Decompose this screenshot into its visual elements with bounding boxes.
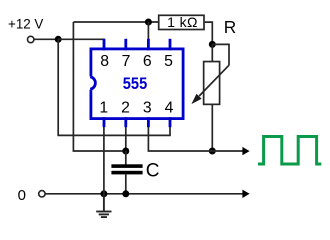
svg-text:R: R: [224, 17, 236, 37]
svg-text:1 kΩ: 1 kΩ: [167, 14, 198, 30]
svg-text:1: 1: [99, 100, 108, 117]
output arrow head: [242, 147, 249, 155]
svg-text:5: 5: [164, 53, 173, 70]
wire pin 1 down to ground bus: [103, 127, 105, 194]
node E junction dot (output): [209, 148, 216, 155]
wire resistor to node D: [205, 22, 213, 44]
pin 7 stub: [124, 39, 127, 51]
svg-text:6: 6: [143, 53, 152, 70]
svg-text:C: C: [146, 161, 160, 182]
wire node B to pin 6: [147, 22, 149, 40]
pin 2 stub: [124, 117, 127, 127]
pin 1 stub: [103, 117, 106, 127]
svg-text:555: 555: [123, 74, 147, 93]
variable resistor R body: [204, 62, 220, 105]
wire pins 2-6 loop: vertical from top wire down to node C: [73, 22, 125, 151]
svg-text:8: 8: [100, 53, 109, 70]
wire pin 2 down to node C: [125, 127, 127, 151]
terminal +12V: [28, 36, 34, 42]
wire top: loop corner to resistor box, through node B: [73, 21, 158, 23]
wire capacitor to ground bus: [125, 174, 127, 193]
node F junction dot (pin1/ground): [100, 190, 107, 197]
pin 3 stub: [147, 117, 150, 127]
node A junction dot: [55, 36, 62, 43]
variable resistor wiper arrow: [199, 65, 229, 96]
IC notch erase: [87, 76, 93, 89]
wire node A down and across to pin 4: [58, 39, 170, 135]
wire ground bus: [45, 193, 243, 195]
svg-text:4: 4: [165, 100, 174, 117]
node B junction dot: [145, 19, 152, 26]
capacitor C bottom plate: [111, 171, 142, 175]
svg-text:2: 2: [121, 100, 130, 117]
resistor 1 kOhm box: [159, 15, 204, 29]
capacitor C top plate: [111, 164, 142, 168]
wire wiper connection L: [212, 44, 229, 65]
node C junction dot: [122, 148, 129, 155]
op-amp U1 555 IC body: [91, 49, 183, 119]
wire node A to pin 8: [58, 38, 105, 40]
terminal 0V: [39, 191, 45, 197]
pin 6 stub: [147, 39, 150, 51]
wire R bottom to node E: [211, 105, 213, 152]
node D junction dot: [209, 41, 216, 48]
svg-text:0: 0: [18, 187, 26, 204]
svg-text:3: 3: [143, 100, 152, 117]
wire node C to capacitor: [125, 151, 127, 165]
pin 8 stub: [103, 39, 106, 51]
wire terminal to node A: [34, 38, 58, 40]
node G junction dot (capacitor/ground): [122, 190, 129, 197]
IC notch arc: [90, 77, 95, 89]
ground symbol: [96, 194, 111, 217]
pin 5 stub: [169, 39, 172, 51]
pin 4 stub: [169, 117, 172, 127]
ground bus arrow head: [242, 190, 249, 198]
svg-text:7: 7: [122, 53, 131, 70]
wire node D to R body top: [211, 44, 213, 62]
square wave output symbol: [258, 137, 321, 165]
svg-text:+12 V: +12 V: [8, 17, 43, 32]
wire pin 3 to output: [148, 127, 243, 151]
